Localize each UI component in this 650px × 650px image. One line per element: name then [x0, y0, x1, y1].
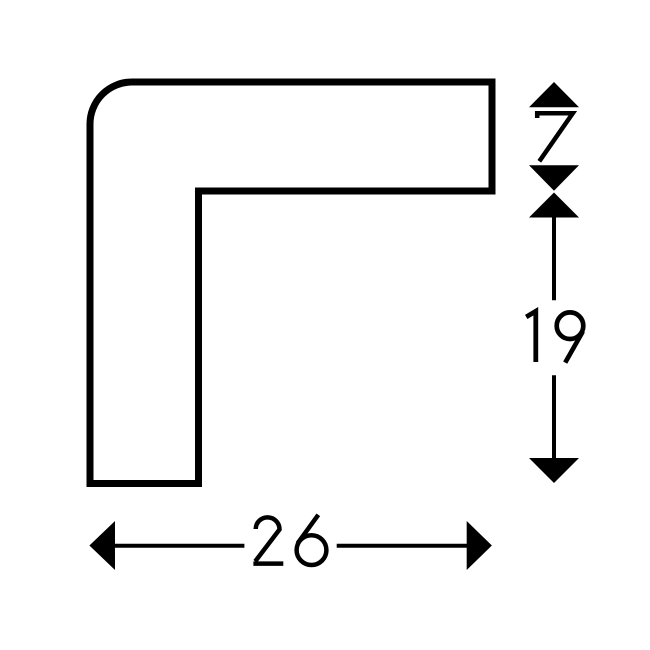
- dimension 7: lower arrowhead (points down): [529, 165, 579, 191]
- dimension 26: numeral 2: [253, 517, 283, 563]
- dimension 26: right dimension line: [337, 544, 468, 548]
- dimension 19: lower extension line: [552, 375, 556, 459]
- dimension 19: numeral 9 tail: [565, 332, 583, 363]
- dimension 19: upper extension line: [552, 217, 556, 300]
- dimension 26: left arrowhead (points left): [89, 521, 115, 570]
- dimension 7: numeral 7: [537, 113, 573, 161]
- dimension 19: numeral 9 bowl: [557, 312, 584, 339]
- dimension 19: lower arrowhead (points down): [529, 458, 579, 483]
- dimension 7: upper arrowhead (points up): [529, 82, 579, 107]
- dimension 26: right arrowhead (points right): [467, 521, 492, 570]
- profile outline (L-shaped corner guard cross-section): [90, 82, 492, 484]
- dimension 26: left dimension line: [115, 544, 245, 548]
- dimension 26: numeral 6 bowl: [297, 535, 327, 565]
- dimension 19: numeral 1: [526, 311, 536, 362]
- dimension 26: numeral 6 stem: [298, 515, 319, 544]
- dimension 19: upper arrowhead (points up): [529, 193, 579, 218]
